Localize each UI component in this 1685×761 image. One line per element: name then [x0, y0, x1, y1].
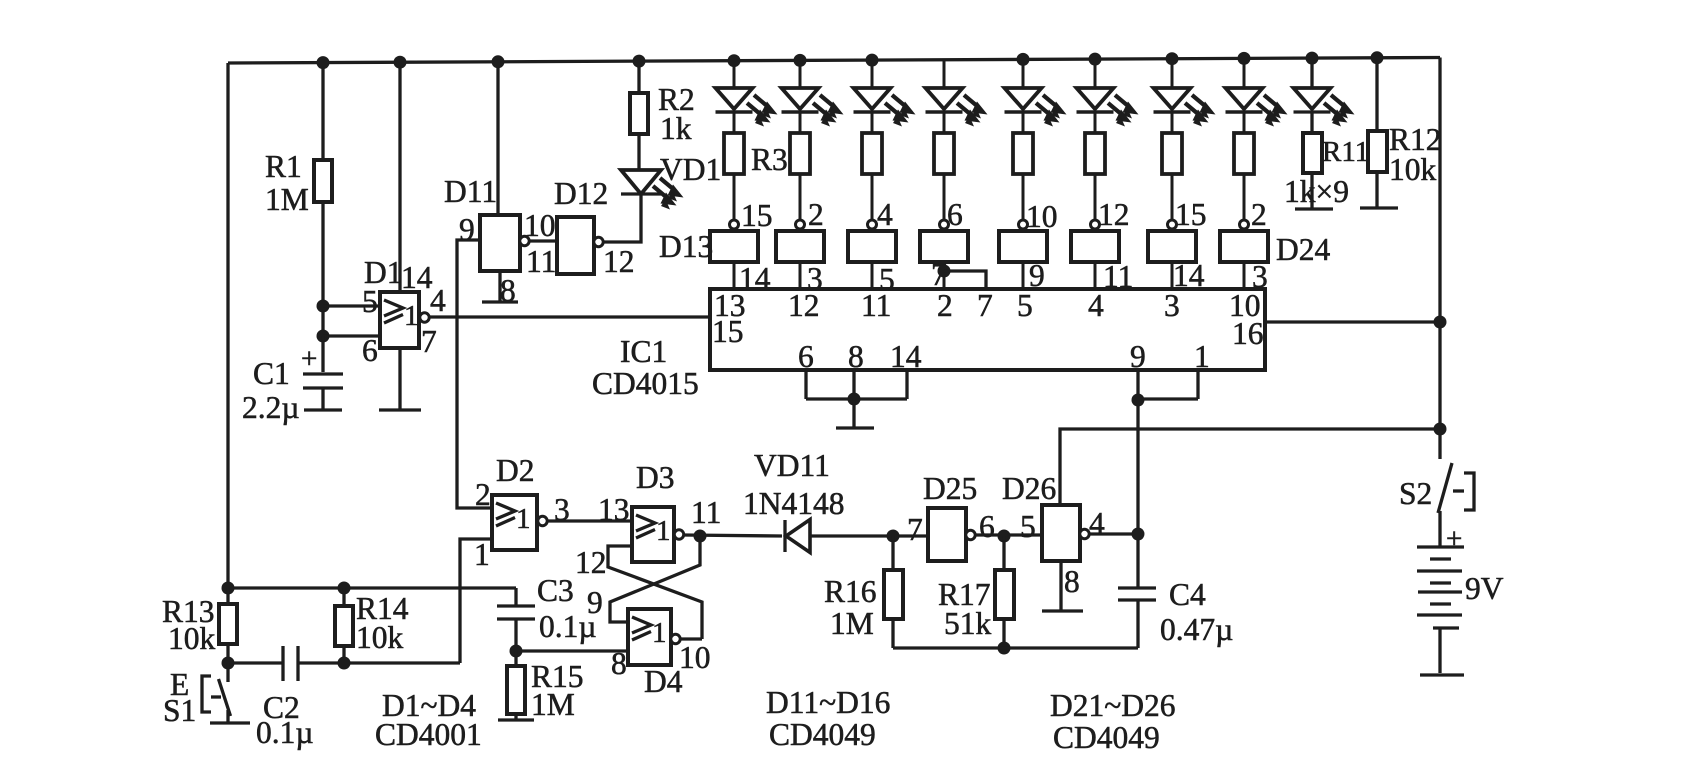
svg-text:4: 4: [877, 197, 893, 232]
svg-text:1: 1: [1194, 339, 1210, 374]
svg-text:4: 4: [430, 283, 446, 318]
svg-text:8: 8: [500, 273, 516, 308]
svg-text:8: 8: [1064, 564, 1080, 599]
svg-text:6: 6: [979, 509, 995, 544]
wire: D4 out to D3 pin12 (cross coupling): [608, 546, 702, 639]
svg-text:3: 3: [1164, 288, 1180, 323]
svg-text:8: 8: [848, 339, 864, 374]
svg-text:2: 2: [808, 197, 824, 232]
svg-text:CD4015: CD4015: [592, 366, 699, 401]
capacitor C1: [242, 336, 343, 425]
LED column 4: LED, resistor, inverter D16, pins 2 and 7: [920, 60, 988, 292]
svg-text:1M: 1M: [531, 687, 575, 722]
svg-text:11: 11: [691, 495, 721, 530]
svg-text:6: 6: [798, 339, 814, 374]
op-amp gate D1 (NOR, CD4001): [362, 56, 446, 410]
LED column 5: LED, resistor, inverter D17: [999, 53, 1067, 293]
svg-text:12: 12: [575, 545, 607, 580]
svg-text:R3: R3: [751, 142, 788, 177]
svg-text:CD4049: CD4049: [769, 717, 876, 752]
svg-text:0.47µ: 0.47µ: [1160, 612, 1233, 647]
capacitor C3: [497, 573, 597, 658]
wire: D11 out to D12 in: [529, 239, 557, 242]
LED column 8: LED, resistor, inverter D24: [1220, 52, 1330, 294]
svg-text:4: 4: [1088, 288, 1104, 323]
svg-text:D21~D26: D21~D26: [1050, 688, 1176, 723]
svg-text:D2: D2: [496, 453, 535, 488]
svg-text:14: 14: [401, 260, 433, 295]
svg-text:10k: 10k: [168, 621, 216, 656]
svg-text:D4: D4: [644, 664, 683, 699]
svg-text:IC1: IC1: [620, 334, 667, 369]
svg-text:15: 15: [741, 198, 773, 233]
svg-text:15: 15: [712, 314, 744, 349]
svg-text:2: 2: [1251, 197, 1267, 232]
resistor R12: [1360, 51, 1442, 208]
svg-text:D24: D24: [1276, 232, 1330, 267]
op-amp gate D4 (NOR, CD4001): [611, 609, 711, 699]
op-amp gate D3 (NOR, CD4001): [575, 460, 721, 620]
inverter D12 (CD4049): [554, 176, 635, 279]
wire: RC node to D4 pin8: [516, 649, 628, 652]
battery 9V: [1417, 523, 1504, 675]
switch S2: [1399, 463, 1474, 547]
LED column 9 with resistor R11: [1284, 52, 1369, 209]
inverter D25 (CD4049): [907, 471, 1042, 561]
wire: vertical D11 pin9 / D2 pin2: [457, 240, 492, 508]
svg-text:R16: R16: [824, 574, 877, 609]
wire: to D1 pin6: [323, 334, 380, 337]
svg-text:VD11: VD11: [754, 448, 830, 483]
svg-text:1k: 1k: [660, 111, 692, 146]
svg-text:5: 5: [362, 284, 378, 319]
svg-text:12: 12: [1098, 197, 1130, 232]
svg-text:16: 16: [1232, 316, 1264, 351]
capacitor C4: [1118, 577, 1233, 648]
svg-text:5: 5: [1017, 288, 1033, 323]
svg-text:7: 7: [977, 288, 993, 323]
svg-text:S2: S2: [1399, 476, 1432, 511]
svg-text:0.1µ: 0.1µ: [256, 715, 314, 750]
svg-text:10: 10: [679, 640, 711, 675]
wire: IC1 pins 6,8,14 to ground: [806, 370, 907, 427]
svg-text:D11~D16: D11~D16: [766, 685, 890, 720]
switch S1: [163, 663, 250, 728]
svg-text:1: 1: [516, 503, 531, 535]
svg-text:12: 12: [603, 244, 635, 279]
svg-text:10k: 10k: [356, 620, 404, 655]
svg-text:10: 10: [1026, 199, 1058, 234]
node: D25 out / R17 top / D26 in: [998, 530, 1011, 543]
wire: left rail: [226, 63, 229, 590]
diode VD11 1N4148: [683, 448, 928, 553]
svg-text:CD4001: CD4001: [375, 717, 482, 752]
inverter D26 (CD4049): [1002, 471, 1138, 611]
svg-text:2: 2: [937, 288, 953, 323]
svg-text:D13: D13: [659, 229, 713, 264]
svg-text:1: 1: [656, 515, 671, 547]
wire: D12 out up to VD1: [603, 194, 641, 242]
resistor R16: [824, 536, 903, 648]
ground under IC1 pin 8: [836, 426, 874, 429]
svg-text:5: 5: [1020, 509, 1036, 544]
resistor R14: [335, 588, 409, 663]
svg-text:12: 12: [788, 288, 820, 323]
svg-text:C1: C1: [253, 356, 290, 391]
svg-text:7: 7: [421, 324, 437, 359]
wire: right rail to D26 top (supply): [1060, 429, 1440, 506]
svg-text:+: +: [301, 343, 317, 375]
svg-text:0.1µ: 0.1µ: [539, 609, 597, 644]
LED column 1: LED, resistor R3, inverter D13: [659, 54, 788, 296]
svg-text:11: 11: [526, 244, 556, 279]
LED column 3: LED, resistor, inverter D15: [848, 54, 916, 297]
svg-text:6: 6: [362, 333, 378, 368]
IC U1: IC1 CD4015: [592, 288, 1265, 401]
svg-text:7: 7: [907, 512, 923, 547]
svg-text:4: 4: [1089, 506, 1105, 541]
svg-text:11: 11: [861, 288, 891, 323]
svg-text:15: 15: [1175, 197, 1207, 232]
svg-text:D25: D25: [923, 471, 977, 506]
resistor R15: [498, 651, 584, 722]
LED column 6: LED, resistor, inverter D18: [1071, 53, 1139, 294]
svg-text:14: 14: [890, 339, 922, 374]
wire: IC1 pin16 to right rail: [1265, 320, 1440, 323]
LED column 2: LED, resistor, inverter D14: [776, 54, 844, 296]
LED VD1: [621, 152, 721, 210]
wire: to D1 pin5: [323, 304, 380, 307]
svg-text:+: +: [1446, 523, 1462, 555]
wire: timing node row (y=588): [228, 586, 516, 589]
svg-text:9: 9: [1130, 339, 1146, 374]
resistor R13: [162, 588, 237, 663]
node: D1 inputs junctions: [317, 300, 330, 313]
capacitor C2: [222, 646, 461, 750]
resistor R2: [630, 55, 695, 170]
wire: D1 pin4 output to IC1 pin15: [429, 315, 710, 318]
node: D26 out / IC1 pin9 / C4 top: [1132, 528, 1145, 541]
svg-text:13: 13: [598, 492, 630, 527]
svg-text:D11: D11: [444, 174, 497, 209]
wire: right rail: [1438, 58, 1441, 460]
svg-text:9: 9: [459, 212, 475, 247]
wire: D2 out to D3 in pin13: [547, 519, 632, 522]
wire: IC1 pins 9,1 tied, down to D26 output node: [1132, 370, 1199, 588]
resistor R1: [265, 56, 332, 336]
svg-text:CD4049: CD4049: [1053, 720, 1160, 755]
svg-text:10k: 10k: [1389, 152, 1437, 187]
svg-text:1k×9: 1k×9: [1284, 174, 1349, 209]
svg-text:S1: S1: [163, 693, 196, 728]
svg-text:2.2µ: 2.2µ: [242, 390, 300, 425]
svg-text:10: 10: [524, 208, 556, 243]
svg-text:2: 2: [475, 477, 491, 512]
svg-text:1: 1: [474, 537, 490, 572]
svg-text:D26: D26: [1002, 471, 1056, 506]
svg-text:6: 6: [947, 197, 963, 232]
svg-text:1: 1: [404, 300, 419, 332]
svg-text:D12: D12: [554, 176, 608, 211]
svg-text:1M: 1M: [830, 606, 874, 641]
node: VD11 cathode / R16 top: [887, 530, 900, 543]
svg-text:C4: C4: [1169, 577, 1206, 612]
wire: bottom RC rail: [893, 646, 1138, 649]
svg-text:R1: R1: [265, 149, 302, 184]
svg-text:9V: 9V: [1465, 571, 1504, 606]
op-amp gate D2 (NOR, CD4001): [460, 453, 570, 663]
wire: top supply rail: [228, 58, 1440, 64]
svg-text:1: 1: [652, 617, 667, 649]
svg-text:VD1: VD1: [660, 152, 721, 187]
inverter D11 (CD4049): [444, 55, 556, 308]
svg-text:51k: 51k: [944, 606, 992, 641]
svg-text:1M: 1M: [265, 182, 309, 217]
wire: D3 out to D4 in (cross coupling): [610, 536, 700, 622]
LED column 7: LED, resistor, inverter D19: [1148, 52, 1216, 293]
svg-text:D3: D3: [636, 460, 675, 495]
resistor R17: [938, 536, 1014, 655]
svg-text:R11: R11: [1322, 136, 1369, 168]
svg-text:C3: C3: [537, 573, 574, 608]
svg-text:1N4148: 1N4148: [743, 486, 845, 521]
